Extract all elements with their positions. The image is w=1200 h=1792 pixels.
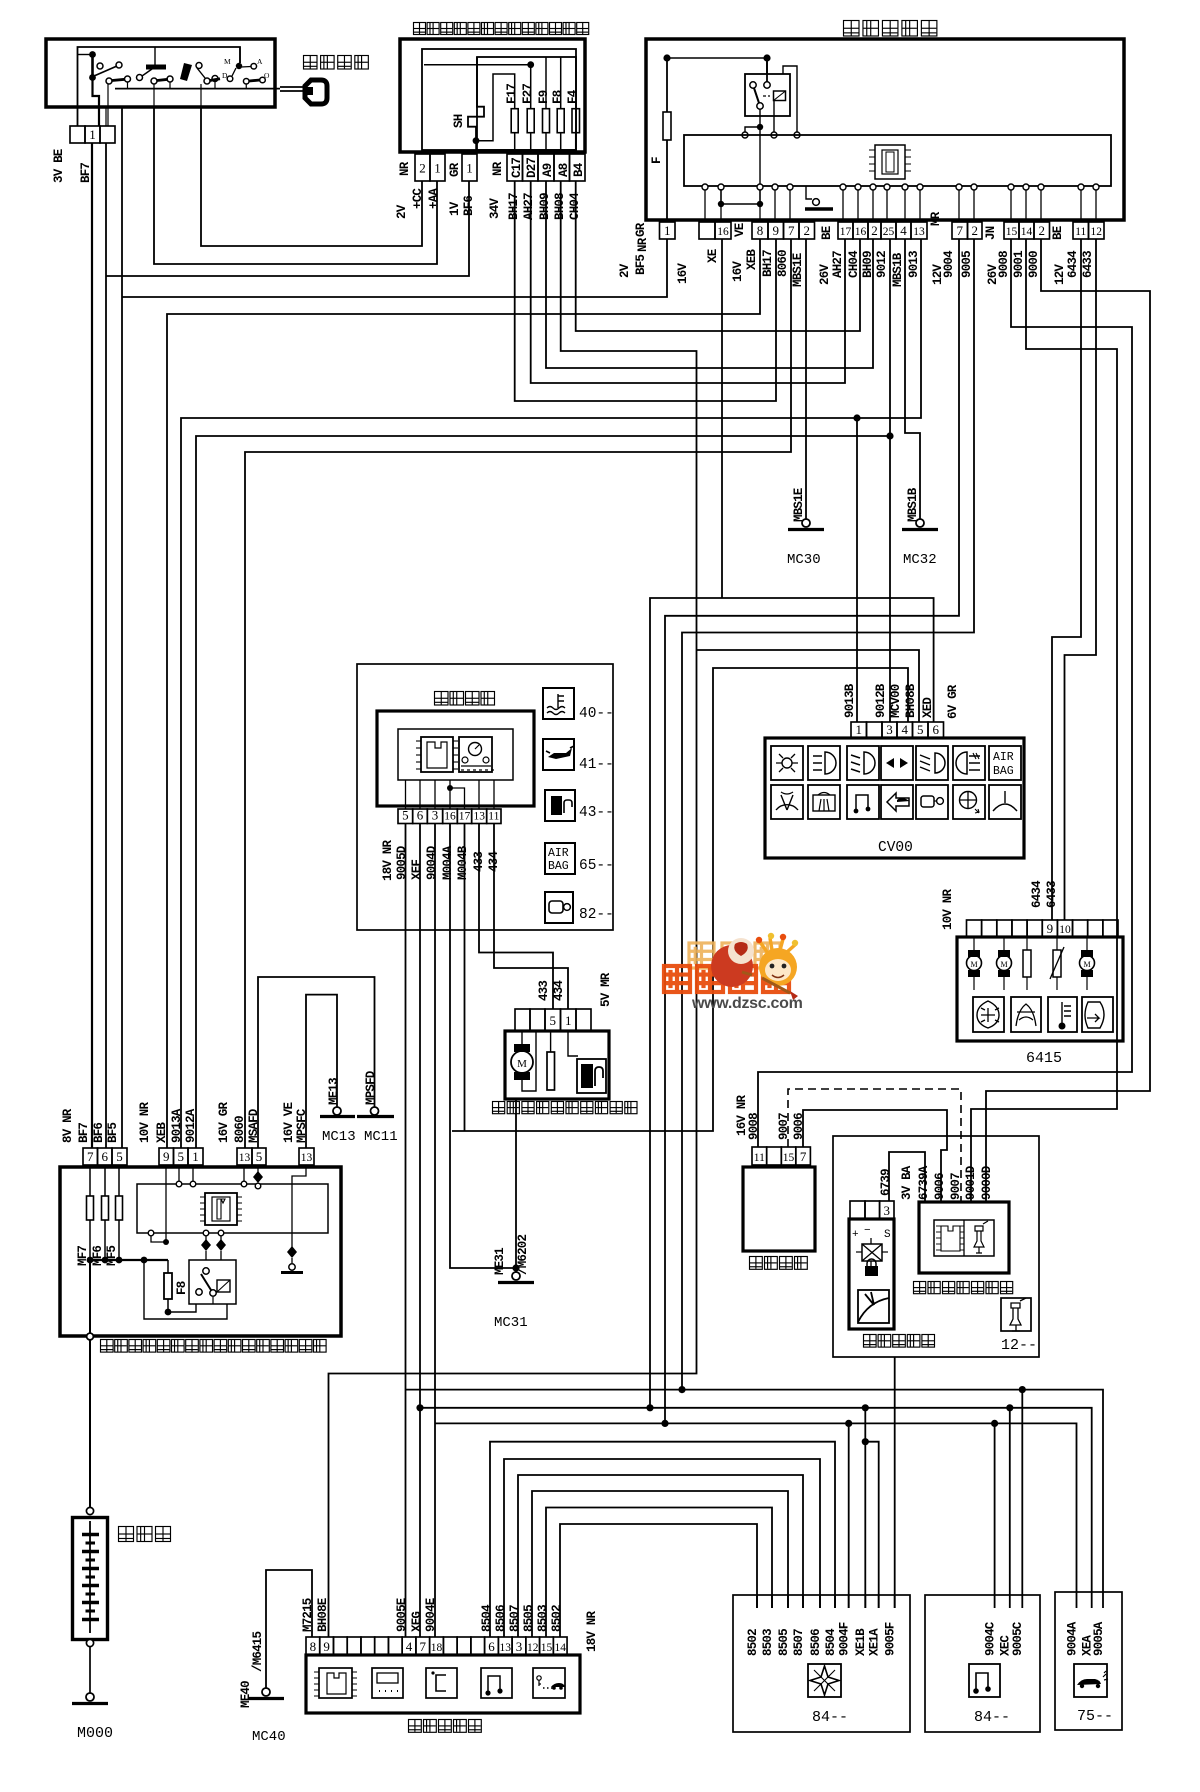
wire 8507 <box>518 1475 803 1637</box>
svg-text:7: 7 <box>800 1149 807 1164</box>
svg-text:MC40: MC40 <box>252 1729 286 1745</box>
fuse F17 with feed loop <box>476 74 515 141</box>
svg-text:MBS1E: MBS1E <box>792 488 806 522</box>
cluster IC symbol <box>421 737 453 772</box>
6415 resistor <box>1026 937 1028 950</box>
svg-text:10V NR: 10V NR <box>138 1101 152 1143</box>
CV00 icon row1 col5 fog lamp <box>916 746 948 780</box>
svg-text:MPSFD: MPSFD <box>364 1070 378 1105</box>
svg-text:BF6: BF6 <box>92 1123 106 1143</box>
svg-text:1: 1 <box>664 223 671 238</box>
svg-text:BF5: BF5 <box>634 255 648 275</box>
svg-text:6739A: 6739A <box>917 1165 931 1200</box>
svg-text:6434: 6434 <box>1066 250 1080 278</box>
wire 9012 / 9012B vertical <box>889 239 891 722</box>
fuse F <box>663 112 671 140</box>
svg-text:M004A: M004A <box>441 845 455 880</box>
bus 9005 right drop to 75 box <box>1022 1390 1103 1608</box>
svg-text:17: 17 <box>840 226 852 238</box>
wire BF7 battery feed <box>91 143 93 1148</box>
svg-text:8504: 8504 <box>480 1604 494 1632</box>
svg-text:12: 12 <box>1091 226 1103 238</box>
bus XE right drop XEA <box>1010 1408 1092 1608</box>
svg-text:MPSFC: MPSFC <box>295 1108 309 1143</box>
svg-text:8V NR: 8V NR <box>61 1108 75 1143</box>
switch contact group 1 <box>97 63 103 69</box>
fuse F feed wire <box>663 54 670 61</box>
svg-text:5V MR: 5V MR <box>599 972 613 1007</box>
svg-text:7: 7 <box>788 223 795 238</box>
svg-text:5: 5 <box>116 1149 123 1164</box>
wire M6202 pump ground <box>515 1099 517 1276</box>
svg-text:13: 13 <box>913 226 925 238</box>
wire XE1A <box>865 1442 878 1608</box>
svg-text:NR: NR <box>636 237 650 252</box>
svg-text:7: 7 <box>957 223 964 238</box>
svg-text:26V: 26V <box>818 264 832 285</box>
svg-text:M: M <box>517 1058 527 1070</box>
wire 9005C drop <box>1021 1390 1023 1608</box>
svg-text:9001: 9001 <box>1012 251 1026 278</box>
svg-text:A8: A8 <box>557 163 571 177</box>
svg-text:3V BE: 3V BE <box>52 149 66 183</box>
warning icon AIR BAG 65 <box>545 843 575 874</box>
fuse F4 <box>572 109 580 133</box>
svg-text:GR: GR <box>448 162 462 177</box>
ground MC30 <box>802 519 810 527</box>
svg-text:F9: F9 <box>537 90 551 104</box>
relay in smart box <box>745 74 790 116</box>
wire MCV00 <box>452 668 908 1131</box>
wire XEC drop <box>1009 1408 1011 1608</box>
svg-text:3V BA: 3V BA <box>900 1165 914 1200</box>
fuel pump level sensor link <box>568 1031 578 1056</box>
svg-text:8503: 8503 <box>761 1629 775 1656</box>
svg-text:9: 9 <box>773 223 780 238</box>
battery feed through panel <box>89 1260 91 1333</box>
speed sensor X element <box>870 1238 872 1244</box>
wire BH09 <box>546 181 873 368</box>
CV00 box <box>765 738 1024 858</box>
wire 9005 from smart box <box>682 239 974 1390</box>
svg-text:9: 9 <box>323 1639 330 1654</box>
wire BF6 <box>106 181 469 276</box>
battery terminal circle <box>86 1507 93 1514</box>
svg-text:18V NR: 18V NR <box>585 1610 599 1652</box>
MPSFC internal ground drop <box>292 1165 306 1248</box>
wire 9007 dashed <box>788 1089 961 1202</box>
svg-text:14: 14 <box>1021 226 1033 238</box>
svg-text:B4: B4 <box>572 162 586 177</box>
svg-text:8060: 8060 <box>233 1116 247 1143</box>
svg-text:9013: 9013 <box>907 251 921 278</box>
svg-text:XE1A: XE1A <box>867 1628 881 1656</box>
icon chime 84 <box>969 1664 1000 1697</box>
svg-text:M: M <box>1083 960 1090 969</box>
diagnostic plug pins <box>752 1147 767 1165</box>
svg-text:XEG: XEG <box>410 1612 424 1632</box>
engine panel inner rect <box>137 1184 328 1233</box>
svg-text:43--: 43-- <box>579 805 614 821</box>
wire 8503 <box>546 1508 772 1638</box>
svg-text:9005A: 9005A <box>1092 1621 1106 1656</box>
smart box title zhineng kongzhihe <box>844 21 937 37</box>
inner jumper with dots <box>718 201 724 207</box>
svg-text:GR: GR <box>634 222 648 237</box>
label dianhuo-kaiguan (ignition switch) <box>304 56 369 70</box>
svg-text:BE: BE <box>820 226 834 240</box>
svg-text:MC13 MC11: MC13 MC11 <box>322 1129 398 1145</box>
svg-text:8060: 8060 <box>776 250 790 277</box>
warning icon fuel 43 <box>545 790 575 821</box>
svg-text:M: M <box>224 57 231 66</box>
svg-text:3: 3 <box>886 722 893 737</box>
ground MC32 <box>916 519 924 527</box>
svg-text:MSAFD: MSAFD <box>247 1108 261 1143</box>
fuse F8 <box>560 57 562 109</box>
MSAFD diamond entry <box>257 1165 259 1173</box>
svg-text:6: 6 <box>417 808 424 823</box>
svg-text:5: 5 <box>402 808 409 823</box>
wire BH08 long run <box>329 181 697 1637</box>
car alarm box 75 <box>1055 1592 1122 1730</box>
engine panel relay <box>189 1260 236 1304</box>
svg-text:84--: 84-- <box>812 1709 848 1726</box>
svg-text:MCV00: MCV00 <box>889 684 903 718</box>
wire AH27 <box>531 181 845 383</box>
CV00 icon row2 col7 parking <box>989 785 1021 819</box>
CV00 icon row1 col7 AIR BAG text <box>989 746 1021 780</box>
svg-text:11: 11 <box>488 811 499 823</box>
svg-text:NR: NR <box>491 161 505 176</box>
svg-text:/M6202: /M6202 <box>516 1234 530 1275</box>
svg-text:9012: 9012 <box>875 251 889 278</box>
svg-text:MF5: MF5 <box>105 1246 119 1266</box>
svg-text:12: 12 <box>527 1642 539 1654</box>
wire XE down to bus <box>650 598 722 1408</box>
speed sensor box <box>849 1219 894 1329</box>
svg-text:8502: 8502 <box>550 1605 564 1632</box>
speed sensor label chesu chuanganqi <box>864 1335 935 1348</box>
svg-text:8507: 8507 <box>508 1605 522 1632</box>
svg-text:5: 5 <box>178 1149 185 1164</box>
wire top link to relay <box>667 57 767 59</box>
warning icon oil 41 <box>543 739 574 770</box>
svg-text:1V: 1V <box>448 201 462 216</box>
inner rect bottom circles with diamonds <box>203 1230 209 1236</box>
svg-text:6: 6 <box>488 1639 495 1654</box>
svg-text:+AA: +AA <box>427 188 441 209</box>
ignition thick feed link <box>89 51 96 58</box>
svg-text:6: 6 <box>102 1149 109 1164</box>
svg-text:MF7: MF7 <box>76 1246 90 1266</box>
svg-text:M: M <box>1000 960 1007 969</box>
svg-text:9000: 9000 <box>1027 251 1041 278</box>
svg-text:BF7: BF7 <box>79 163 93 183</box>
switch contact group 2 <box>146 65 166 70</box>
wire XE from smart box <box>721 239 723 598</box>
icon car sound 75 <box>1074 1664 1107 1697</box>
svg-text:MR: MR <box>929 211 943 226</box>
svg-text:F8: F8 <box>551 90 565 104</box>
svg-text:8505: 8505 <box>522 1605 536 1632</box>
svg-text:F8: F8 <box>175 1281 189 1295</box>
fuse box inner rect 2 <box>477 57 576 150</box>
svg-text:9004A: 9004A <box>1065 1621 1079 1656</box>
svg-text:9005D: 9005D <box>395 845 409 880</box>
relay coil top loop over <box>783 66 797 132</box>
engine panel bus wire <box>88 1259 168 1261</box>
svg-text:10V NR: 10V NR <box>941 888 955 930</box>
svg-text:1: 1 <box>466 161 473 176</box>
svg-text:5: 5 <box>550 1013 557 1028</box>
svg-text:F27: F27 <box>521 84 535 104</box>
svg-text:9005: 9005 <box>960 251 974 278</box>
svg-text:84--: 84-- <box>974 1709 1010 1726</box>
wire 9006 to ECU <box>803 1110 947 1202</box>
svg-text:BH08E: BH08E <box>316 1598 330 1632</box>
6415 box <box>957 937 1123 1041</box>
fuse box inner rect <box>422 49 576 150</box>
svg-text:9005E: 9005E <box>395 1598 409 1632</box>
smart box inner pin circles <box>702 184 708 190</box>
svg-text:13: 13 <box>239 1152 251 1164</box>
svg-text:F: F <box>650 157 664 164</box>
CV00 icon row1 col2 high beam <box>808 746 840 780</box>
screen icon display <box>372 1668 403 1698</box>
wire CH04 <box>576 181 860 331</box>
svg-text:9: 9 <box>1047 921 1054 936</box>
svg-text:13: 13 <box>301 1152 313 1164</box>
svg-text:1: 1 <box>856 722 863 737</box>
fuel pump sender resistor <box>550 1031 552 1052</box>
engine panel pin circles <box>176 1181 182 1187</box>
diagnostic plug label zhenduan chatou <box>750 1257 808 1270</box>
ground M000 <box>86 1693 94 1701</box>
svg-text:−: − <box>864 1225 871 1237</box>
svg-text:9004E: 9004E <box>424 1598 438 1632</box>
svg-text:MC32: MC32 <box>903 552 937 568</box>
engine panel IC symbol <box>205 1193 237 1225</box>
bus 9004 horizontal <box>435 1422 995 1424</box>
svg-text:BH08B: BH08B <box>904 683 918 718</box>
watermark text zhao xin pian (outline) <box>689 943 714 968</box>
wire 9005F drop <box>894 1357 896 1608</box>
6415 motor 2 <box>1003 937 1005 950</box>
ground ME13 / MC13 <box>333 1107 341 1115</box>
warning device box 84 (cluster bulbs) <box>733 1595 910 1732</box>
svg-text:F4: F4 <box>566 89 580 104</box>
svg-text:CH04: CH04 <box>847 250 861 278</box>
ground MC31 <box>512 1272 520 1280</box>
svg-text:34V: 34V <box>488 198 502 219</box>
svg-text:16: 16 <box>717 226 729 238</box>
wire 9012A with node <box>196 436 890 1148</box>
fuse F9 <box>545 57 547 109</box>
svg-text:82--: 82-- <box>579 907 614 923</box>
wire 9004D to screen <box>434 824 436 1638</box>
screen icon key-car <box>533 1668 565 1698</box>
watermark text weiku yixia (orange) <box>664 966 690 992</box>
svg-text:2: 2 <box>804 223 811 238</box>
svg-text:6433: 6433 <box>1081 251 1095 278</box>
6415 icon recirculation <box>1011 997 1041 1032</box>
svg-text:M000: M000 <box>77 1725 113 1742</box>
svg-text:AIR: AIR <box>548 847 569 860</box>
svg-text:8504: 8504 <box>824 1628 838 1656</box>
svg-text:16V GR: 16V GR <box>217 1101 231 1143</box>
svg-text:2: 2 <box>419 161 426 176</box>
svg-text:XEF: XEF <box>410 860 424 880</box>
switch contact group 3 <box>180 63 192 81</box>
svg-text:ME13: ME13 <box>327 1078 341 1105</box>
screen icon bracket <box>426 1668 457 1698</box>
bus 9005 horizontal <box>406 1389 1023 1391</box>
svg-text:1: 1 <box>192 1149 199 1164</box>
wire XE1B split <box>864 1408 866 1608</box>
wire BH08B branch to CV00 <box>697 650 920 722</box>
cluster inner white box <box>398 729 513 780</box>
CV00 icon row1 col1 dashboard lamp <box>771 746 803 780</box>
svg-text:M004B: M004B <box>456 845 470 880</box>
svg-text:XEB: XEB <box>155 1122 169 1143</box>
svg-text:16V: 16V <box>676 263 690 284</box>
wire 6739 sensor to ECU <box>889 1152 925 1202</box>
wire 9004 from smart box <box>665 239 959 1423</box>
svg-text:17: 17 <box>459 811 471 823</box>
svg-text:9012B: 9012B <box>874 683 888 718</box>
svg-text:1: 1 <box>434 161 441 176</box>
wire MSAFD jumper <box>258 977 375 1148</box>
svg-text:BAG: BAG <box>993 765 1014 778</box>
svg-text:7: 7 <box>420 1639 427 1654</box>
CV00 icon row2 col6 brake <box>953 785 985 819</box>
wire 6434 <box>1052 239 1081 920</box>
svg-text:BF5: BF5 <box>106 1123 120 1143</box>
svg-text:BAG: BAG <box>548 860 569 873</box>
svg-text:9005C: 9005C <box>1011 1621 1025 1656</box>
svg-text:16: 16 <box>855 226 867 238</box>
cluster unit thick box <box>377 711 534 806</box>
svg-text:16V VE: 16V VE <box>282 1102 296 1143</box>
screen connector pins <box>306 1637 320 1655</box>
svg-text:M: M <box>970 960 977 969</box>
svg-text:3: 3 <box>516 1639 523 1654</box>
svg-text:8: 8 <box>310 1639 317 1654</box>
svg-text:5: 5 <box>917 722 924 737</box>
svg-text:14: 14 <box>554 1642 566 1654</box>
svg-text:XE1B: XE1B <box>854 1628 868 1656</box>
svg-text:16V: 16V <box>731 261 745 282</box>
svg-text:BH08: BH08 <box>553 193 567 220</box>
CV00 icon row1 col6 rear fog <box>953 746 985 780</box>
ECU inner boxes <box>934 1220 994 1256</box>
icon 4-point star <box>808 1664 841 1697</box>
cluster pin wires <box>405 780 407 809</box>
svg-text:9004D: 9004D <box>425 845 439 880</box>
svg-text:16: 16 <box>444 811 456 823</box>
svg-text:1: 1 <box>565 1013 572 1028</box>
6415 icon air distribution <box>973 997 1004 1032</box>
fuse MF5 <box>118 1165 120 1196</box>
wire 8505 <box>532 1491 788 1637</box>
fuel pump connector pins <box>515 1009 530 1031</box>
ignition switch box <box>46 39 275 107</box>
svg-text:8506: 8506 <box>809 1629 823 1656</box>
svg-text:2: 2 <box>1039 223 1046 238</box>
svg-text:13: 13 <box>499 1642 511 1654</box>
svg-text:MBS1E: MBS1E <box>791 253 805 287</box>
svg-text:8505: 8505 <box>777 1629 791 1656</box>
svg-text:4: 4 <box>902 722 909 737</box>
ECU container box <box>833 1136 1039 1357</box>
fuel pump dispenser icon <box>577 1059 606 1093</box>
svg-text:A: A <box>257 57 263 66</box>
svg-text:2V: 2V <box>395 204 409 219</box>
svg-text:A9: A9 <box>541 163 555 177</box>
wire 9004F drop <box>848 1423 850 1608</box>
svg-text:433: 433 <box>537 981 551 1001</box>
wire XEF to screen <box>419 824 421 1638</box>
CV00 icon row1 col3 low beam <box>847 746 879 780</box>
battery cell plates <box>89 1521 91 1534</box>
6415 connector pins <box>967 920 982 937</box>
svg-text:C17: C17 <box>510 158 524 178</box>
svg-text:AH27: AH27 <box>831 251 845 278</box>
warning icon coolant 40 <box>543 688 574 719</box>
svg-text:CV00: CV00 <box>878 840 913 856</box>
wire XED branch to CV00 <box>722 598 934 722</box>
svg-text:MBS1B: MBS1B <box>891 252 905 287</box>
svg-text:75--: 75-- <box>1077 1708 1113 1725</box>
injector small box 12 <box>1001 1298 1031 1331</box>
relay common wire down <box>759 109 761 204</box>
screen icon IC <box>319 1668 352 1698</box>
svg-text:MC31: MC31 <box>494 1315 528 1331</box>
wire BF5 <box>121 107 123 1148</box>
fuse MF6 <box>104 1165 106 1196</box>
svg-text:BH17: BH17 <box>507 193 521 220</box>
6415 icon temperature <box>1048 997 1077 1032</box>
svg-text:2V: 2V <box>618 263 632 278</box>
wire M004B <box>464 824 466 1132</box>
CV00 icon row2 col1 wiper <box>771 785 803 819</box>
engine bay fuse panel box <box>60 1167 341 1336</box>
svg-text:9008: 9008 <box>997 251 1011 278</box>
ignition key symbol <box>280 86 303 88</box>
svg-text:434: 434 <box>552 980 566 1001</box>
svg-text:XEB: XEB <box>745 249 759 270</box>
speed sensor padlock <box>867 1259 876 1266</box>
svg-text:ME31: ME31 <box>493 1248 507 1275</box>
fuel pump motor <box>521 1031 523 1044</box>
engine fuse panel title (zai fadongjicang nei) rongduanqihe kongzhi mianban <box>101 1340 327 1353</box>
SH shunt element <box>468 57 484 141</box>
cluster title zuhe yibiao <box>435 692 495 706</box>
svg-text:8506: 8506 <box>494 1605 508 1632</box>
relay loop wiring <box>144 1260 227 1319</box>
svg-text:9005F: 9005F <box>883 1622 897 1656</box>
wire 9013A with node <box>181 239 921 1148</box>
ground MC40 <box>262 1688 270 1696</box>
svg-text:+: + <box>852 1229 859 1241</box>
ECU box <box>919 1202 1009 1273</box>
fuse F8 <box>167 1260 169 1273</box>
wire M004A <box>450 824 516 1269</box>
engine panel top pins <box>83 1148 98 1165</box>
svg-text:9001D: 9001D <box>964 1165 978 1200</box>
svg-text:9000D: 9000D <box>980 1165 994 1200</box>
